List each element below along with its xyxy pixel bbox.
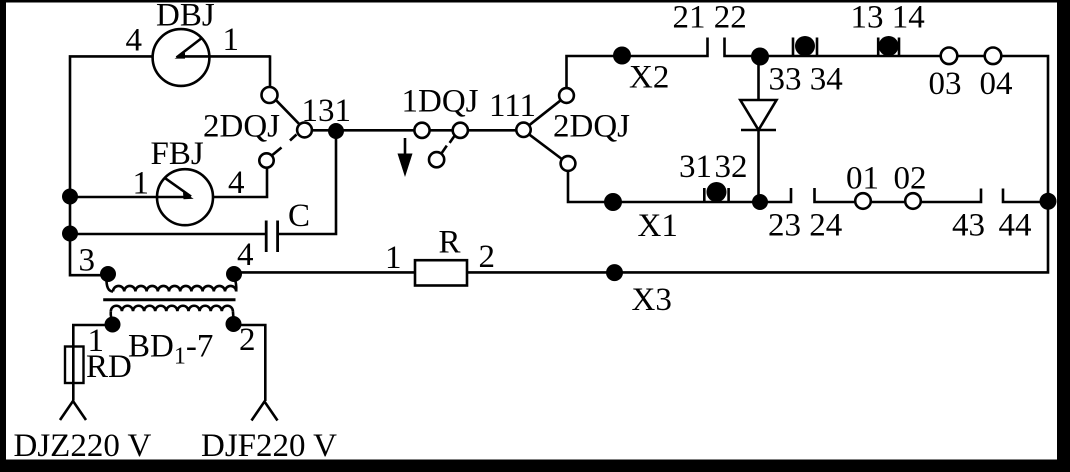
svg-text:01: 01 [846,161,879,197]
svg-text:DBJ: DBJ [156,0,215,34]
svg-text:44: 44 [999,208,1032,244]
svg-text:FBJ: FBJ [151,136,204,172]
svg-text:31: 31 [679,149,712,185]
svg-text:04: 04 [980,66,1013,102]
svg-text:X2: X2 [629,60,669,96]
svg-text:2: 2 [239,322,256,358]
svg-text:X3: X3 [632,282,672,318]
svg-text:02: 02 [894,161,927,197]
svg-text:X1: X1 [638,208,678,244]
svg-text:13 14: 13 14 [851,0,925,36]
svg-text:R: R [439,225,461,261]
svg-text:RD: RD [86,349,132,385]
svg-text:111: 111 [489,88,536,124]
svg-text:1: 1 [133,166,150,202]
svg-text:1DQJ: 1DQJ [402,84,479,120]
svg-text:43: 43 [952,208,985,244]
svg-text:2: 2 [479,239,496,275]
svg-text:4: 4 [237,237,254,273]
svg-text:C: C [288,198,310,234]
svg-text:DJZ220 V: DJZ220 V [14,428,152,464]
svg-text:03: 03 [929,66,962,102]
svg-text:2DQJ: 2DQJ [203,108,280,144]
svg-text:33 34: 33 34 [769,62,843,98]
svg-text:DJF220 V: DJF220 V [201,428,337,464]
svg-text:4: 4 [126,23,143,59]
svg-text:23 24: 23 24 [768,208,842,244]
svg-text:BD1-7: BD1-7 [128,329,213,370]
svg-text:4: 4 [228,165,245,201]
svg-text:1: 1 [385,240,402,276]
svg-text:131: 131 [302,93,352,129]
svg-text:3: 3 [79,243,96,279]
svg-text:2DQJ: 2DQJ [553,109,630,145]
svg-text:32: 32 [715,149,748,185]
svg-text:21 22: 21 22 [673,0,747,36]
svg-text:1: 1 [223,22,240,58]
